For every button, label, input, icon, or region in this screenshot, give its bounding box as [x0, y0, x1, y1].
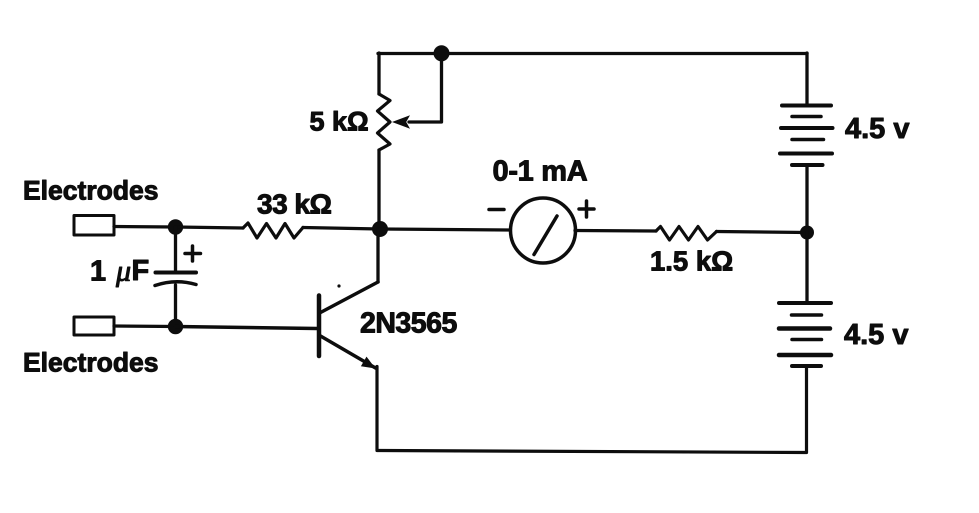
potentiometer wiper arrow [392, 60, 442, 129]
wire electrode top to node [114, 225, 176, 229]
transistor Q1 2N3565 [319, 282, 378, 369]
meter minus sign [489, 208, 504, 212]
wire base node to meter [380, 229, 511, 230]
svg-text:Electrodes: Electrodes [23, 348, 159, 378]
wire collector to base node [376, 229, 379, 282]
node top junction [434, 45, 450, 61]
svg-text:μ: μ [115, 255, 131, 288]
resistor 33 kOhm [243, 223, 303, 238]
electrode terminal top [74, 216, 114, 236]
wire emitter down and bottom rail [377, 366, 807, 453]
svg-text:4.5 v: 4.5 v [845, 113, 910, 145]
meter plus sign [579, 201, 594, 217]
meter needle [534, 216, 557, 255]
battery BT1 top 4.5v [780, 53, 833, 226]
node base junction [372, 221, 388, 237]
meter M1 circle [511, 198, 576, 263]
wire resistor 1.5k to right node [717, 232, 808, 233]
svg-text:2N3565: 2N3565 [360, 308, 457, 340]
wire base lead [176, 327, 318, 329]
wire top rail [378, 52, 807, 55]
electrode terminal bottom [74, 317, 114, 335]
node input bottom [168, 319, 183, 334]
svg-text:F: F [132, 255, 150, 287]
potentiometer 5 kOhm body [378, 53, 391, 229]
svg-text:1.5 kΩ: 1.5 kΩ [650, 246, 733, 277]
svg-text:5 kΩ: 5 kΩ [310, 106, 369, 136]
wire meter to resistor 1.5k [575, 229, 656, 233]
svg-text:0-1 mA: 0-1 mA [493, 156, 588, 188]
svg-text:1: 1 [90, 256, 106, 288]
capacitor plus sign [185, 246, 201, 261]
node right junction [800, 226, 814, 240]
ink speck [337, 284, 340, 287]
wire electrode bottom to node [114, 324, 176, 328]
capacitor C1 1uF [155, 227, 196, 327]
svg-text:33 kΩ: 33 kΩ [257, 189, 331, 220]
resistor 1.5 kOhm [656, 227, 717, 241]
wire resistor 33k to base node [303, 228, 380, 230]
node input top [168, 219, 183, 234]
battery BT2 bottom 4.5v [779, 233, 831, 367]
wire node to resistor 33k [176, 227, 244, 228]
svg-text:4.5 v: 4.5 v [844, 319, 909, 351]
svg-text:Electrodes: Electrodes [23, 176, 159, 206]
